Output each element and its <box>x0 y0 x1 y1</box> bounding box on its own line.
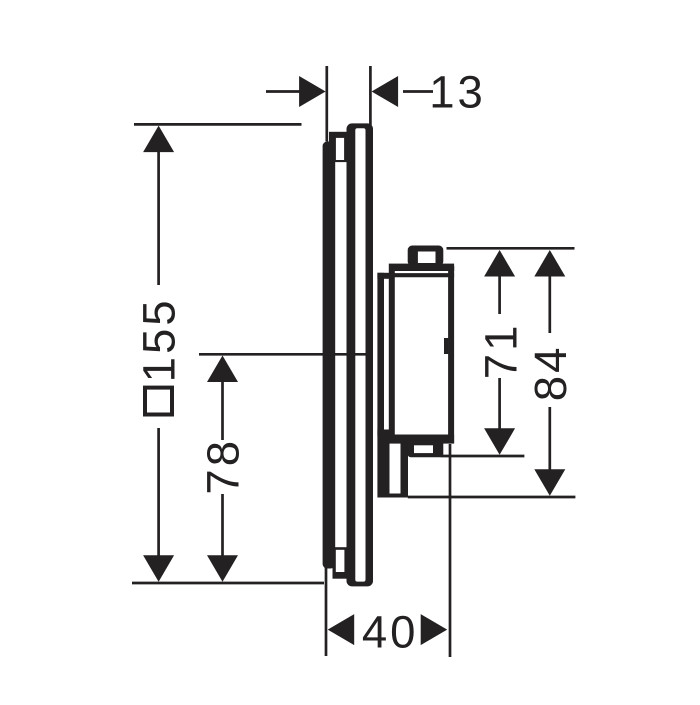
centre extension line (78 top) crossing plate <box>199 353 371 356</box>
detent on inner right wall <box>444 338 448 354</box>
svg-text:13: 13 <box>429 67 486 118</box>
dimension 84 <box>525 250 576 496</box>
escutcheon front plate <box>347 123 374 586</box>
cap on top <box>408 246 444 267</box>
extension line 71 bottom <box>441 455 525 458</box>
dimension 155 <box>134 126 185 582</box>
dimension 40 <box>328 607 448 658</box>
bracket top stub <box>377 273 389 279</box>
plate rim bottom detail <box>333 547 352 579</box>
extension line 40-right <box>449 444 452 657</box>
lower housing <box>377 430 408 498</box>
extension line bottom-left (155/78 bottom) <box>132 582 324 585</box>
extension line 13-right <box>369 66 372 127</box>
bottom tab <box>408 441 444 458</box>
extension line top-left (155 top) <box>134 123 302 126</box>
dimension 71 <box>475 250 526 455</box>
svg-text:155: 155 <box>134 297 185 382</box>
extension line 13-left <box>325 66 328 142</box>
bracket strip behind cartridge <box>377 273 384 436</box>
body top thick edge <box>389 266 454 271</box>
extension line 40-left <box>325 566 328 656</box>
extension line cap top (71/84 top) <box>447 247 575 250</box>
dimension 78 <box>197 356 248 582</box>
body bottom band <box>389 435 454 444</box>
svg-text:78: 78 <box>197 438 248 495</box>
extension line 84 bottom <box>408 496 576 499</box>
dimension 13 <box>266 67 486 118</box>
body top double line <box>389 273 454 277</box>
svg-text:84: 84 <box>525 345 576 402</box>
plate rim top detail <box>329 132 351 162</box>
svg-text:40: 40 <box>362 607 419 658</box>
svg-text:71: 71 <box>475 323 526 380</box>
cartridge body <box>392 267 451 441</box>
carrier plate (wall plate edge, solid) <box>323 142 336 569</box>
